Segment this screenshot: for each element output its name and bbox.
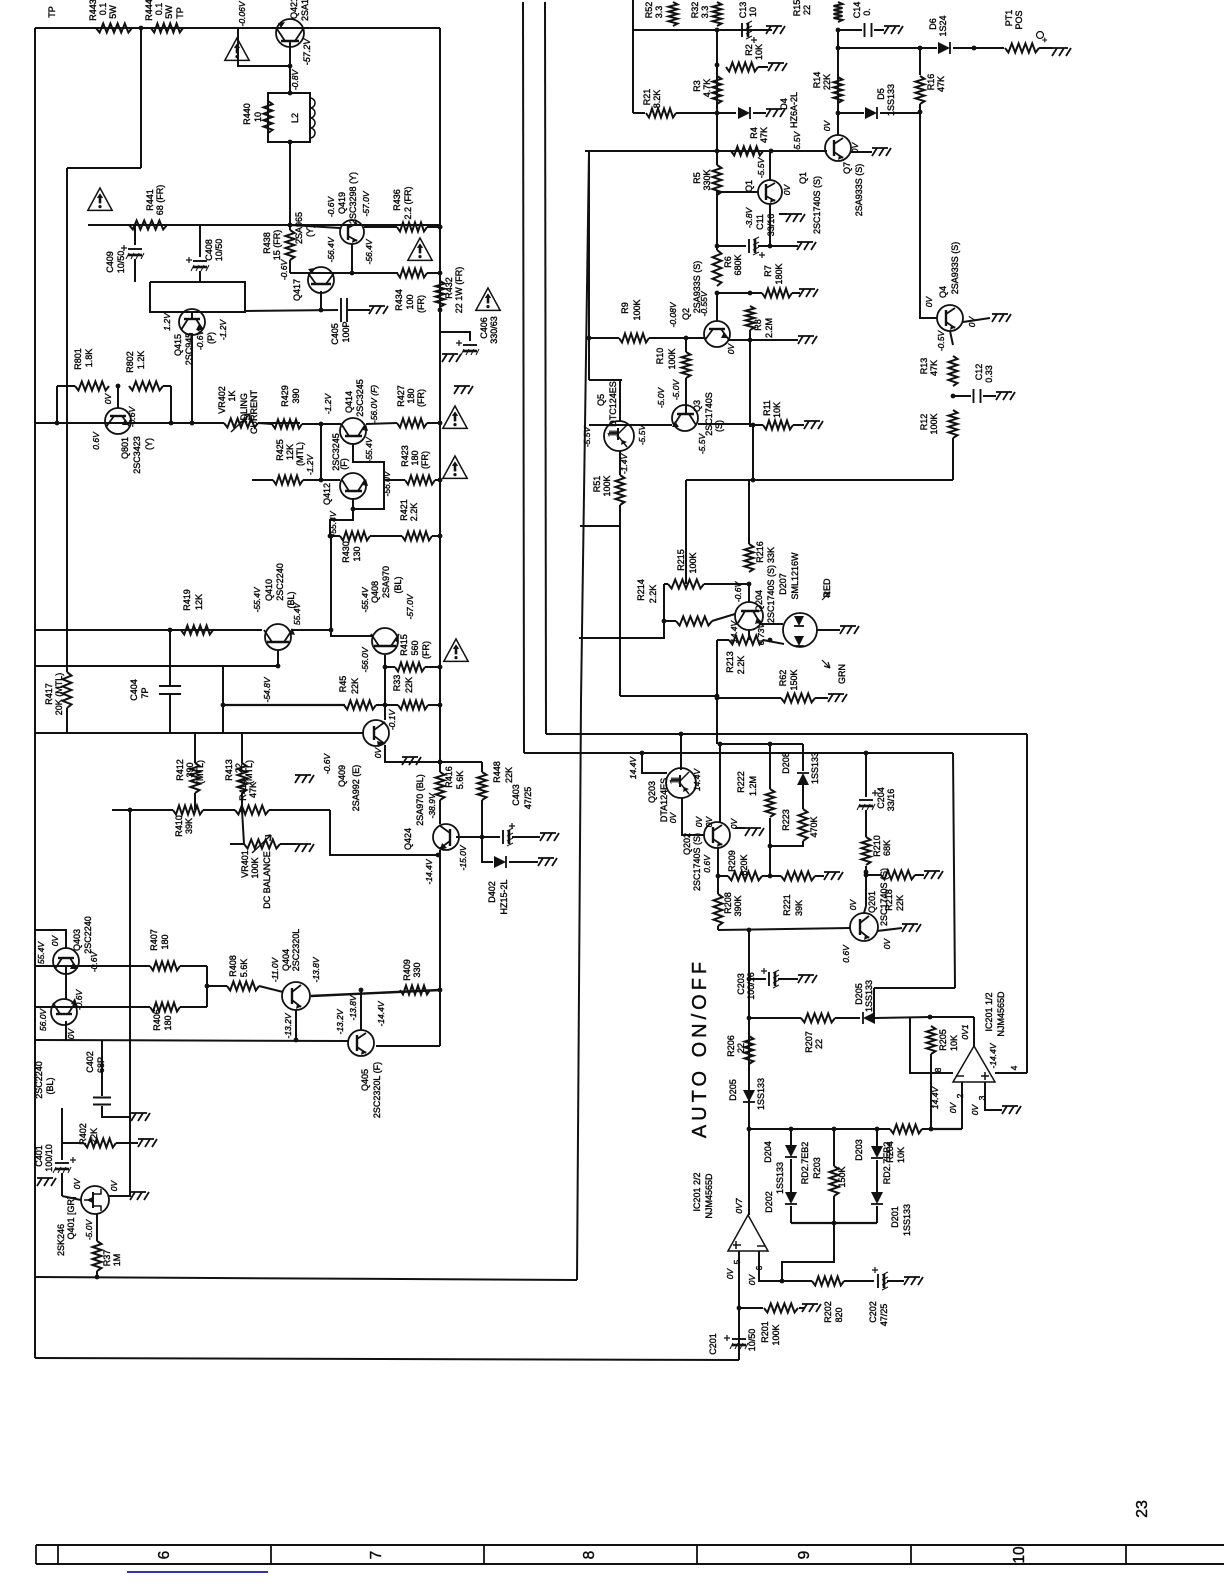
wire row y425 xyxy=(589,424,672,426)
wire R208 bot xyxy=(717,926,719,930)
svg-text:130: 130 xyxy=(352,546,362,561)
svg-text:R51: R51 xyxy=(592,476,602,493)
svg-text:+: + xyxy=(1040,37,1050,42)
svg-text:-1.2V: -1.2V xyxy=(218,319,228,341)
svg-text:R205: R205 xyxy=(938,1029,948,1051)
resistor R432 xyxy=(436,281,445,307)
resistor R438 xyxy=(286,230,295,260)
transistor Q403 xyxy=(53,948,79,974)
svg-text:180: 180 xyxy=(160,934,170,949)
svg-text:R801: R801 xyxy=(73,348,83,370)
wire x141 drop xyxy=(140,28,142,168)
wire Q408 base xyxy=(331,630,372,636)
junction xyxy=(715,28,720,33)
junction xyxy=(139,26,144,31)
wire R51 bot xyxy=(619,505,621,696)
svg-text:100K: 100K xyxy=(771,1324,781,1345)
svg-text:2SC2240: 2SC2240 xyxy=(83,916,93,954)
svg-text:1SS133: 1SS133 xyxy=(775,1162,785,1194)
wire Q408 em col xyxy=(384,655,386,705)
junction xyxy=(438,308,443,313)
junction xyxy=(715,63,720,68)
wire R202 left xyxy=(782,1280,812,1282)
svg-text:10: 10 xyxy=(1011,1546,1028,1564)
svg-text:1.8K: 1.8K xyxy=(84,349,94,368)
svg-text:7: 7 xyxy=(368,1551,385,1560)
svg-text:R209: R209 xyxy=(727,850,737,872)
capacitor C409 xyxy=(128,248,142,250)
wire R51 to R62 xyxy=(620,695,717,697)
wire R205 bot xyxy=(930,1054,932,1129)
resistor R7 xyxy=(762,289,792,298)
svg-text:-15.0V: -15.0V xyxy=(458,844,468,870)
svg-text:D4: D4 xyxy=(779,98,789,110)
junction xyxy=(587,336,592,341)
wire R413 bot xyxy=(241,793,243,810)
svg-text:2SK246: 2SK246 xyxy=(56,1224,66,1256)
junction xyxy=(205,984,210,989)
warning triangle xyxy=(443,406,467,428)
svg-text:-5.5V: -5.5V xyxy=(637,424,647,446)
svg-text:R7: R7 xyxy=(763,265,773,277)
wire R429 left xyxy=(258,423,272,424)
wire D204-D202 xyxy=(790,1159,792,1192)
ground xyxy=(130,1192,149,1200)
svg-text:-5.5V: -5.5V xyxy=(792,131,802,153)
svg-text:VR401: VR401 xyxy=(240,850,250,878)
wire x953 down xyxy=(953,753,955,988)
svg-text:(FR): (FR) xyxy=(416,389,426,407)
wire x686 drop xyxy=(685,480,687,584)
svg-text:1SS133: 1SS133 xyxy=(886,84,896,116)
wire D4 gnd xyxy=(753,112,766,114)
wire row y536 xyxy=(330,535,340,537)
junction xyxy=(836,46,841,51)
junction xyxy=(832,1221,837,1226)
wire R415 left xyxy=(385,666,395,668)
svg-text:R52: R52 xyxy=(644,2,654,19)
svg-text:R412: R412 xyxy=(175,759,185,781)
resistor R416 xyxy=(436,772,445,800)
svg-text:R438: R438 xyxy=(262,232,272,254)
potentiometer VR402 xyxy=(224,419,258,428)
svg-text:180: 180 xyxy=(406,388,416,403)
junction xyxy=(662,619,667,624)
svg-text:3: 3 xyxy=(977,1095,987,1100)
wire R207-D205 xyxy=(835,1017,860,1019)
wire C202 gnd xyxy=(887,1280,904,1282)
svg-text:R9: R9 xyxy=(620,302,630,314)
wire Q412 base row xyxy=(321,479,340,481)
svg-text:C403: C403 xyxy=(511,784,521,806)
wire Q401 src xyxy=(109,1195,131,1197)
svg-text:2SC3245: 2SC3245 xyxy=(355,379,365,417)
svg-text:2SC2320L: 2SC2320L xyxy=(291,929,301,972)
wire L2 down xyxy=(289,142,291,225)
wire R425 right xyxy=(303,479,321,481)
resistor R216 xyxy=(745,544,754,572)
wire Q424 col row xyxy=(330,810,438,855)
wire C404 bot stub xyxy=(169,695,171,733)
svg-text:5W: 5W xyxy=(108,5,118,19)
junction xyxy=(221,703,226,708)
junction xyxy=(438,225,443,230)
svg-text:R215: R215 xyxy=(676,549,686,571)
svg-text:D205: D205 xyxy=(728,1079,738,1101)
resistor R427 xyxy=(397,419,427,428)
wire row y310 xyxy=(245,310,338,311)
svg-text:R434: R434 xyxy=(394,289,404,311)
ground xyxy=(766,26,785,34)
svg-text:6: 6 xyxy=(156,1551,173,1560)
svg-text:820: 820 xyxy=(834,1307,844,1322)
svg-text:C406: C406 xyxy=(479,317,489,339)
svg-text:22K: 22K xyxy=(89,1128,99,1144)
resistor R423 xyxy=(405,476,435,485)
svg-text:R6: R6 xyxy=(723,256,733,268)
wire opamp +in xyxy=(985,1082,1002,1110)
resistor R2 xyxy=(726,63,758,72)
transistor Q417 xyxy=(308,267,334,293)
transistor Q7 xyxy=(825,135,851,161)
junction xyxy=(288,64,293,69)
junction xyxy=(715,111,720,116)
svg-text:2SC2240: 2SC2240 xyxy=(275,563,285,601)
svg-text:3.3: 3.3 xyxy=(654,6,664,19)
svg-text:10K: 10K xyxy=(949,1035,959,1051)
svg-text:-0.6V: -0.6V xyxy=(89,951,99,973)
diode D205b xyxy=(743,1090,755,1102)
wire R413 top xyxy=(241,733,243,763)
wire frame bottom2 xyxy=(35,1358,739,1360)
svg-text:R45: R45 xyxy=(338,676,348,693)
transistor Q408 xyxy=(371,628,399,654)
svg-text:POS: POS xyxy=(1014,10,1024,29)
svg-text:PT1: PT1 xyxy=(1004,10,1014,27)
svg-text:-0.6V: -0.6V xyxy=(326,196,336,218)
svg-text:0V: 0V xyxy=(782,183,792,195)
resistor R408 xyxy=(227,982,259,991)
junction xyxy=(747,928,752,933)
svg-text:100/10: 100/10 xyxy=(44,1144,54,1172)
resistor PT1 posistor xyxy=(1005,44,1039,53)
resistor R51 xyxy=(616,475,625,505)
junction xyxy=(438,760,443,765)
svg-text:VR402: VR402 xyxy=(217,386,227,414)
svg-text:R415: R415 xyxy=(399,634,409,656)
wire Q3 right row xyxy=(698,423,750,425)
capacitor C14 xyxy=(865,23,872,37)
wire x717 drop xyxy=(716,696,718,744)
wire fb loop xyxy=(782,1223,834,1281)
resistor R412 xyxy=(191,763,200,793)
svg-text:33K: 33K xyxy=(766,547,776,563)
diode D201 xyxy=(871,1192,883,1204)
capacitor C401 xyxy=(55,1162,69,1164)
wire Q202 col xyxy=(719,744,721,822)
wire R213 right xyxy=(763,640,784,644)
op-amp IC201 1/2 xyxy=(953,1046,995,1082)
wire D203-D201 xyxy=(876,1160,878,1192)
warning triangle xyxy=(443,456,467,478)
svg-text:-13.8V: -13.8V xyxy=(348,994,358,1020)
svg-text:(BL): (BL) xyxy=(393,576,403,593)
svg-text:8.2K: 8.2K xyxy=(652,90,662,109)
junction xyxy=(438,271,443,276)
transistor Q412 xyxy=(340,473,368,499)
svg-text:10K: 10K xyxy=(896,1147,906,1163)
wire R214 left xyxy=(664,620,676,622)
junction xyxy=(928,1015,933,1020)
wire L2 box right xyxy=(290,93,310,142)
svg-text:Q414: Q414 xyxy=(344,391,354,413)
svg-text:56.0V: 56.0V xyxy=(38,1008,48,1032)
junction xyxy=(715,694,720,699)
resistor R3 xyxy=(713,76,722,104)
svg-text:22K: 22K xyxy=(404,677,414,693)
svg-text:DC BALANCE: DC BALANCE xyxy=(262,851,272,909)
junction xyxy=(328,534,333,539)
wire C404 up xyxy=(169,630,171,666)
svg-text:R444: R444 xyxy=(144,0,154,21)
junction xyxy=(438,988,443,993)
wire C14 gnd xyxy=(874,29,884,31)
svg-text:820K: 820K xyxy=(739,854,749,875)
wire D202 bot xyxy=(790,1206,792,1223)
junction xyxy=(169,421,174,426)
svg-text:R440: R440 xyxy=(242,103,252,125)
svg-text:47K: 47K xyxy=(759,127,769,143)
wire C404 top stub xyxy=(169,666,171,685)
capacitor C204 rot xyxy=(0,0,1,1)
svg-text:-13.8V: -13.8V xyxy=(311,956,321,982)
wire sum bus xyxy=(791,1222,877,1224)
wire Q404 em xyxy=(295,1010,297,1040)
svg-text:DTC124ES: DTC124ES xyxy=(608,381,618,427)
svg-text:R12: R12 xyxy=(919,414,929,431)
wire inv bus xyxy=(931,1128,962,1130)
svg-text:R5: R5 xyxy=(692,172,702,184)
wire C403 gnd xyxy=(512,836,540,838)
svg-text:R2: R2 xyxy=(744,44,754,56)
ground xyxy=(37,1178,56,1186)
ground xyxy=(996,392,1015,400)
svg-text:R21: R21 xyxy=(642,89,652,106)
svg-text:R414: R414 xyxy=(238,779,248,801)
svg-text:Q204: Q204 xyxy=(754,590,764,612)
resistor R52 xyxy=(669,2,678,26)
svg-text:-0.1V: -0.1V xyxy=(387,709,397,731)
svg-text:C409: C409 xyxy=(105,251,115,273)
wire R216 top xyxy=(748,480,750,544)
wire R802 right xyxy=(163,385,171,387)
ground xyxy=(402,757,421,765)
svg-text:10K: 10K xyxy=(772,402,782,418)
junction xyxy=(832,1127,837,1132)
wire D5 row xyxy=(838,112,864,114)
svg-text:-0.6V: -0.6V xyxy=(322,753,332,775)
svg-text:20K (MTL): 20K (MTL) xyxy=(54,673,64,716)
wire Q417 em xyxy=(320,291,322,310)
resistor R45 xyxy=(344,701,376,710)
transistor Q202 xyxy=(704,822,730,848)
svg-text:1SS133: 1SS133 xyxy=(864,980,874,1012)
ground xyxy=(442,354,461,362)
svg-text:-5.5V: -5.5V xyxy=(582,426,592,448)
svg-text:180K: 180K xyxy=(774,263,784,284)
svg-text:R441: R441 xyxy=(145,189,155,211)
wire Q405 em row xyxy=(376,1045,440,1047)
svg-text:2SC3423: 2SC3423 xyxy=(132,436,142,474)
wire rail y151 xyxy=(585,150,827,152)
svg-text:L2: L2 xyxy=(290,113,300,123)
ground xyxy=(924,871,943,879)
svg-text:(P): (P) xyxy=(206,332,216,344)
svg-text:-5.0V: -5.0V xyxy=(671,379,681,401)
junction xyxy=(319,422,324,427)
wire fb right xyxy=(269,809,330,811)
wire Q424 base row xyxy=(456,836,500,838)
junction xyxy=(438,665,443,670)
svg-text:R402: R402 xyxy=(78,1123,88,1145)
wire y744 row xyxy=(720,743,803,745)
wire C408 stub xyxy=(199,225,201,257)
svg-text:9: 9 xyxy=(796,1551,813,1560)
svg-text:0V: 0V xyxy=(373,746,383,758)
wire R208 top xyxy=(717,876,719,894)
svg-text:R11: R11 xyxy=(762,400,772,416)
svg-text:-57.2V: -57.2V xyxy=(302,38,312,66)
wire D5 right xyxy=(880,112,920,114)
svg-text:-57.0V: -57.0V xyxy=(361,190,371,216)
svg-text:Q412: Q412 xyxy=(322,483,332,505)
wire Q203 em xyxy=(680,734,682,770)
svg-text:2SA1: 2SA1 xyxy=(300,0,310,21)
svg-text:0.6V: 0.6V xyxy=(91,431,101,450)
digital transistor Q203 xyxy=(666,768,696,798)
transistor Q405 xyxy=(348,1030,374,1056)
junction xyxy=(875,1127,880,1132)
svg-text:2SC1740S (S): 2SC1740S (S) xyxy=(812,176,822,234)
wire row y705 xyxy=(223,704,345,706)
wire R16 down xyxy=(919,104,921,305)
svg-text:2.2M: 2.2M xyxy=(764,318,774,338)
wire rail below Q424 xyxy=(439,850,441,1046)
svg-text:0V1: 0V1 xyxy=(960,1024,970,1039)
svg-text:RD2.7EB2: RD2.7EB2 xyxy=(882,1142,892,1185)
svg-text:2.2 (FR): 2.2 (FR) xyxy=(403,186,413,219)
wire row y630b xyxy=(291,629,331,631)
wire Q401 drain xyxy=(62,1196,81,1200)
resistor R203 xyxy=(830,1166,839,1196)
junction xyxy=(864,870,869,875)
wire R203 bot xyxy=(833,1196,835,1223)
svg-text:D402: D402 xyxy=(487,881,497,903)
transistor Q2 xyxy=(704,321,730,347)
junction xyxy=(768,742,773,747)
svg-text:-55.4V: -55.4V xyxy=(328,510,338,536)
resistor R8 xyxy=(746,306,755,330)
svg-text:22: 22 xyxy=(802,5,812,15)
svg-text:(FR): (FR) xyxy=(416,295,426,313)
junction xyxy=(768,844,773,849)
svg-text:22: 22 xyxy=(234,763,244,773)
svg-text:C404: C404 xyxy=(129,679,139,701)
ground xyxy=(872,148,891,156)
svg-text:0V: 0V xyxy=(747,1273,757,1285)
svg-text:R432: R432 xyxy=(444,277,454,299)
transistor Q404 xyxy=(282,982,310,1010)
wire R408 left xyxy=(207,985,227,987)
diode D205 xyxy=(863,1012,875,1024)
svg-text:6: 6 xyxy=(754,1265,764,1270)
wire R203 top xyxy=(833,1129,835,1166)
svg-text:R14: R14 xyxy=(812,72,822,89)
svg-text:0V: 0V xyxy=(72,1177,82,1189)
junction xyxy=(715,244,720,249)
wire Q1 em xyxy=(769,204,771,246)
svg-text:CURRENT: CURRENT xyxy=(249,389,259,434)
wire R425 left xyxy=(252,479,273,481)
ground xyxy=(884,26,903,34)
svg-text:22K: 22K xyxy=(895,895,905,911)
svg-text:R429: R429 xyxy=(280,385,290,407)
transistor Q421 xyxy=(276,19,304,47)
capacitor C402 xyxy=(93,1098,111,1105)
svg-text:0V: 0V xyxy=(668,811,678,823)
resistor R37 xyxy=(93,1241,102,1271)
wire Q202 em xyxy=(717,848,719,876)
svg-text:HZ15-2L: HZ15-2L xyxy=(499,879,509,914)
svg-text:Q405: Q405 xyxy=(360,1069,370,1091)
svg-text:100K: 100K xyxy=(250,857,260,878)
wire C204 bot xyxy=(865,810,867,837)
svg-text:7P: 7P xyxy=(140,687,150,698)
wire left border xyxy=(34,28,36,1358)
diode D5 xyxy=(865,107,877,119)
wire C402 stub xyxy=(101,1040,103,1096)
svg-text:330K: 330K xyxy=(702,169,712,190)
svg-text:R208: R208 xyxy=(723,892,733,914)
resistor R202 xyxy=(812,1277,844,1286)
diode D207a xyxy=(794,616,804,626)
svg-text:-0.8V: -0.8V xyxy=(290,69,300,91)
junction xyxy=(383,703,388,708)
svg-text:5.6K: 5.6K xyxy=(239,959,249,978)
wire R801 left xyxy=(57,385,75,387)
capacitor C203 xyxy=(768,972,770,986)
junction xyxy=(55,421,60,426)
wire C406 loop xyxy=(440,310,470,341)
svg-text:2SA933S (S): 2SA933S (S) xyxy=(854,164,864,217)
svg-text:Q415: Q415 xyxy=(173,334,183,356)
svg-text:0V: 0V xyxy=(694,815,704,827)
svg-text:10/50: 10/50 xyxy=(214,239,224,262)
wire input col xyxy=(61,1108,63,1160)
svg-text:Q1: Q1 xyxy=(798,172,808,184)
wire R221 gnd xyxy=(815,875,824,877)
ground xyxy=(766,109,785,117)
wire R51 top xyxy=(619,451,621,475)
svg-text:-1.2V: -1.2V xyxy=(323,393,333,415)
wire Q414 em xyxy=(353,443,384,509)
resistor R208 xyxy=(714,894,723,926)
svg-text:(Y): (Y) xyxy=(305,225,315,237)
wire R7 left xyxy=(717,292,762,294)
svg-text:0.: 0. xyxy=(862,8,872,16)
junction xyxy=(329,534,334,539)
wire R406 right xyxy=(180,1006,207,1008)
